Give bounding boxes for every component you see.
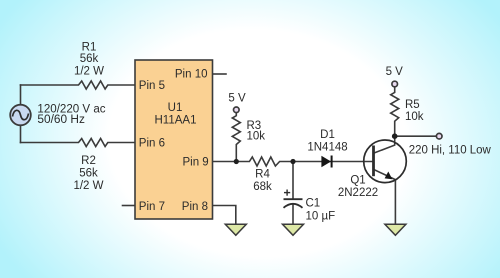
svg-text:68k: 68k [253, 181, 272, 193]
svg-text:56k: 56k [79, 168, 98, 180]
svg-text:5 V: 5 V [386, 66, 404, 78]
svg-text:10k: 10k [247, 131, 266, 143]
svg-text:Pin 5: Pin 5 [139, 80, 165, 92]
svg-text:1N4148: 1N4148 [307, 141, 347, 153]
svg-text:56k: 56k [80, 53, 99, 65]
svg-text:1/2 W: 1/2 W [73, 180, 103, 192]
svg-text:R5: R5 [405, 99, 420, 111]
svg-text:U1: U1 [168, 102, 183, 114]
svg-text:C1: C1 [306, 198, 321, 210]
svg-text:D1: D1 [320, 129, 335, 141]
svg-text:Pin 6: Pin 6 [139, 138, 165, 150]
svg-text:1/2 W: 1/2 W [74, 66, 104, 78]
svg-text:H11AA1: H11AA1 [155, 115, 197, 127]
svg-text:220 Hi, 110 Low: 220 Hi, 110 Low [409, 144, 492, 156]
svg-text:Q1: Q1 [350, 174, 365, 186]
svg-text:10k: 10k [405, 111, 424, 123]
svg-text:R1: R1 [82, 42, 97, 54]
svg-text:Pin 10: Pin 10 [175, 69, 208, 81]
svg-text:Pin 8: Pin 8 [182, 201, 208, 213]
svg-text:Pin 7: Pin 7 [139, 201, 165, 213]
svg-text:Pin 9: Pin 9 [182, 157, 208, 169]
svg-text:50/60 Hz: 50/60 Hz [37, 114, 85, 126]
svg-text:R4: R4 [255, 169, 270, 181]
svg-text:5 V: 5 V [228, 93, 246, 105]
svg-text:2N2222: 2N2222 [338, 187, 378, 199]
svg-text:R2: R2 [81, 155, 96, 167]
svg-text:10 µF: 10 µF [306, 211, 336, 223]
